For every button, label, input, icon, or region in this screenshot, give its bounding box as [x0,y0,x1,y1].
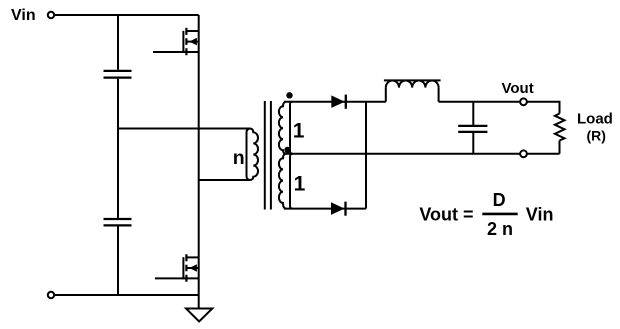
svg-text:(R): (R) [587,128,606,144]
wire secondary top rail [284,101,386,103]
svg-text:n: n [233,147,245,169]
wire primary bottom lead [199,179,251,181]
svg-text:Vin: Vin [526,204,554,224]
node Vout+ terminal [520,98,527,105]
node Vin+ terminal [48,12,54,18]
wire cathode column [365,102,367,209]
wire secondary bottom rail [284,208,366,210]
transistor Q2 (lower MOSFET) [155,254,199,281]
wire inductor to output [439,101,521,103]
transformer T1 core [265,101,271,210]
wire center tap rail [284,153,520,155]
node Vin- terminal [48,292,54,298]
wire top rail Vin to Q1 drain [55,14,199,16]
transformer T1 primary winding (n) [247,129,259,181]
wire switch-node column [198,15,200,309]
wire Vout to load top [527,102,560,114]
node Vout- terminal [520,150,527,157]
transformer T1 secondary winding bottom (1) [279,154,293,209]
phase dot top [286,92,292,98]
svg-text:Vout: Vout [502,80,534,97]
ground [186,309,212,322]
svg-text:Vin: Vin [11,7,36,24]
transistor Q1 (upper MOSFET) [153,28,199,55]
diode D1 [331,95,346,109]
svg-text:Vout =: Vout = [419,204,473,224]
wire bottom rail [55,294,199,296]
wire mid rail from capacitor midpoint [118,128,251,130]
diode D2 [331,202,346,216]
transformer T1 secondary winding top (1) [279,102,293,154]
resistor load R [555,114,565,141]
svg-text:D: D [493,190,506,210]
formula fraction bar [482,213,517,216]
phase dot center tap [284,147,290,153]
capacitor C1 [104,71,132,78]
svg-text:2 n: 2 n [487,219,513,239]
svg-text:1: 1 [293,120,305,143]
wire left column bottom segment [117,227,119,296]
svg-text:1: 1 [294,173,306,196]
wire left column top segment [117,15,119,70]
capacitor C3 output [458,102,487,154]
formula Vout = D/(2n) Vin [419,190,553,239]
capacitor C2 [104,219,132,225]
svg-text:Load: Load [577,111,613,128]
wire left column middle segment [117,79,119,218]
wire load bottom [527,141,560,154]
inductor L1 [384,80,441,101]
